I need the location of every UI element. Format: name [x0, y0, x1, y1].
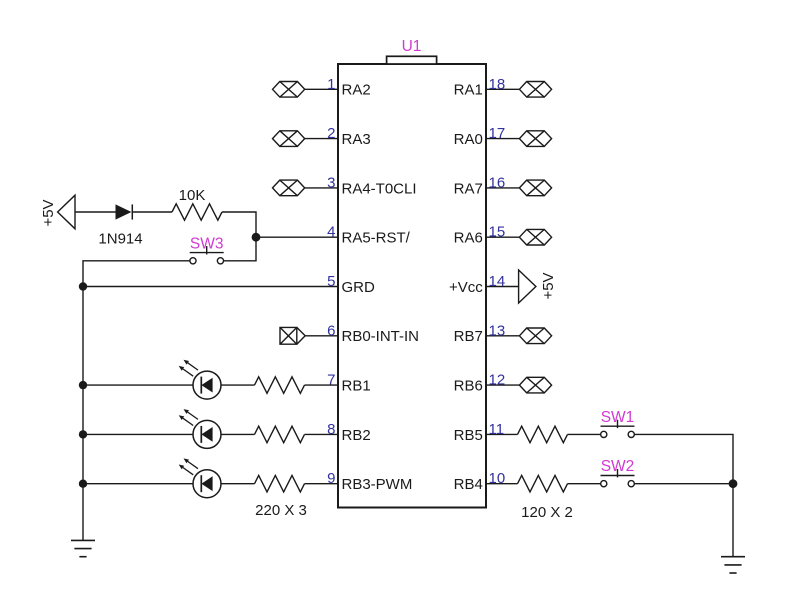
svg-text:220 X 3: 220 X 3 [255, 502, 307, 519]
wire LED1 to resistor [221, 384, 255, 386]
svg-text:12: 12 [489, 372, 506, 389]
wire resistor to SW2 [568, 483, 601, 485]
resistor 220 (row 1) [255, 377, 305, 394]
svg-text:RB2: RB2 [342, 427, 371, 444]
svg-text:17: 17 [489, 125, 506, 142]
svg-text:+5V: +5V [40, 199, 57, 226]
svg-text:RB0-INT-IN: RB0-INT-IN [342, 328, 420, 345]
pin 2 no-connect symbol [273, 131, 305, 147]
IC U1 body [338, 64, 486, 508]
wire diode to resistor 10K [132, 211, 172, 213]
svg-text:+Vcc: +Vcc [449, 279, 483, 296]
wire SW3 to ground bus [83, 261, 190, 287]
svg-text:RA1: RA1 [454, 82, 483, 99]
LED D2 [179, 360, 221, 399]
svg-text:RB4: RB4 [454, 476, 483, 493]
wire SW2 to right bus [634, 483, 733, 485]
svg-text:RA4-T0CLI: RA4-T0CLI [342, 180, 417, 197]
pin 6 stub wire [305, 335, 338, 337]
junction LED2 node [79, 430, 87, 438]
resistor R 10K [172, 204, 222, 221]
junction GRD node [79, 282, 87, 290]
pin 2 stub wire [305, 138, 338, 140]
svg-text:RB5: RB5 [454, 427, 483, 444]
svg-text:+5V: +5V [540, 272, 557, 299]
svg-text:14: 14 [489, 273, 506, 290]
wire bus to LED3 [83, 483, 193, 485]
ground symbol (left) [71, 540, 95, 556]
pin 17 stub wire [486, 138, 519, 140]
svg-text:4: 4 [327, 224, 335, 241]
svg-text:RB7: RB7 [454, 328, 483, 345]
svg-text:SW1: SW1 [601, 409, 635, 426]
pin 3 no-connect symbol [273, 180, 305, 196]
switch SW2 [601, 469, 635, 487]
svg-text:7: 7 [327, 372, 335, 389]
resistor 220 (row 3) [255, 475, 305, 492]
junction right bus node [729, 479, 738, 488]
pin 14 stub wire [486, 286, 519, 288]
svg-text:10: 10 [489, 470, 506, 487]
wire resistor to pin 7 [305, 384, 339, 386]
svg-text:10K: 10K [179, 187, 206, 204]
junction LED3 node [79, 480, 87, 488]
svg-text:1N914: 1N914 [98, 231, 142, 248]
resistor 220 (row 2) [255, 426, 305, 443]
pin 3 stub wire [305, 187, 338, 189]
svg-text:U1: U1 [402, 38, 422, 55]
svg-text:18: 18 [489, 76, 506, 93]
pin 15 no-connect symbol [519, 229, 551, 245]
wire +5V to diode [75, 211, 116, 213]
wire resistor to pin 8 [305, 433, 339, 435]
svg-text:15: 15 [489, 224, 506, 241]
wire bus to LED1 [83, 384, 193, 386]
pin 15 stub wire [486, 236, 519, 238]
pin 16 no-connect symbol [519, 180, 551, 196]
svg-text:RA2: RA2 [342, 82, 371, 99]
pin 17 no-connect symbol [519, 131, 551, 147]
wire 10K to reset node and down to SW3 [222, 212, 256, 261]
pin 13 no-connect symbol [519, 328, 551, 344]
wire resistor to SW1 [568, 433, 601, 435]
switch SW3 [190, 246, 224, 264]
wire GRD to pin 5 [83, 286, 338, 288]
wire LED2 to resistor [221, 433, 255, 435]
svg-text:RB6: RB6 [454, 378, 483, 395]
pin 12 no-connect symbol [519, 377, 551, 393]
switch SW1 [601, 420, 635, 438]
pin 18 stub wire [486, 88, 519, 90]
pin 12 stub wire [486, 384, 519, 386]
svg-text:9: 9 [327, 470, 335, 487]
svg-text:RA3: RA3 [342, 131, 371, 148]
IC U1 top tab [387, 56, 437, 64]
pin 11 stub wire [486, 433, 518, 435]
svg-text:RB1: RB1 [342, 378, 371, 395]
ground bus (left vertical) [82, 287, 84, 541]
svg-text:3: 3 [327, 174, 335, 191]
svg-text:RA5-RST/: RA5-RST/ [342, 230, 411, 247]
svg-text:5: 5 [327, 273, 335, 290]
+5V power symbol (left) [58, 195, 75, 229]
pin 6 input terminal symbol [280, 327, 305, 344]
svg-text:SW2: SW2 [601, 458, 635, 475]
svg-text:13: 13 [489, 322, 506, 339]
LED D4 [179, 458, 221, 497]
junction node reset [252, 233, 261, 242]
wire LED3 to resistor [221, 483, 255, 485]
wire node to pin 4 [256, 236, 338, 238]
svg-text:11: 11 [489, 421, 505, 438]
svg-text:1: 1 [327, 76, 335, 93]
svg-text:2: 2 [327, 125, 335, 142]
svg-text:GRD: GRD [342, 279, 376, 296]
diode D1 1N914 [116, 204, 133, 219]
svg-text:RA6: RA6 [454, 230, 483, 247]
ground symbol (right) [721, 557, 745, 573]
junction LED1 node [79, 381, 87, 389]
pin 10 stub wire [486, 483, 518, 485]
pin 18 no-connect symbol [519, 82, 551, 98]
svg-text:RA0: RA0 [454, 131, 483, 148]
pin 1 stub wire [305, 88, 338, 90]
+5V power symbol (right) [519, 270, 536, 303]
pin 1 no-connect symbol [273, 82, 305, 98]
svg-text:6: 6 [327, 322, 335, 339]
wire SW1 to right bus [634, 434, 733, 483]
wire right bus to ground [732, 484, 734, 557]
wire bus to LED2 [83, 433, 193, 435]
wire resistor to pin 9 [305, 483, 339, 485]
svg-text:RB3-PWM: RB3-PWM [342, 476, 413, 493]
pin 16 stub wire [486, 187, 519, 189]
svg-text:120 X 2: 120 X 2 [521, 504, 573, 521]
pin 13 stub wire [486, 335, 519, 337]
LED D3 [179, 409, 221, 448]
svg-text:16: 16 [489, 174, 506, 191]
resistor 120 (row SW1) [518, 426, 568, 443]
svg-text:SW3: SW3 [190, 235, 224, 252]
resistor 120 (row SW2) [518, 475, 568, 492]
svg-text:8: 8 [327, 421, 335, 438]
svg-text:RA7: RA7 [454, 180, 483, 197]
